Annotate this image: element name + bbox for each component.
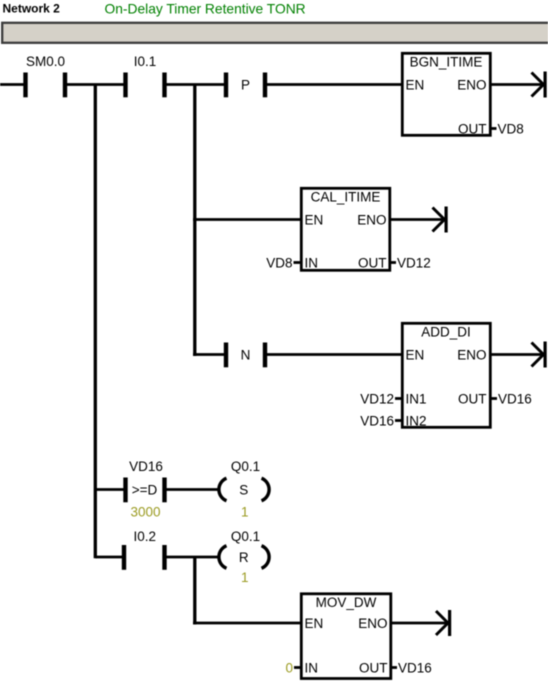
- svg-text:R: R: [239, 550, 249, 565]
- svg-text:CAL_ITIME: CAL_ITIME: [311, 190, 381, 205]
- contact I0.1: [123, 54, 166, 97]
- svg-text:VD12: VD12: [360, 391, 394, 406]
- arrow continuation rung3: [532, 342, 547, 368]
- wire IN2 tick: [395, 419, 401, 422]
- arrow continuation rung2: [433, 207, 448, 233]
- svg-text:Q0.1: Q0.1: [231, 529, 260, 544]
- wire ENO out: [492, 353, 544, 356]
- svg-text:3000: 3000: [130, 505, 160, 520]
- svg-text:On-Delay Timer Retentive TONR: On-Delay Timer Retentive TONR: [105, 1, 306, 16]
- svg-text:VD12: VD12: [397, 255, 431, 270]
- wire: [167, 556, 219, 559]
- svg-text:N: N: [241, 347, 251, 362]
- svg-text:OUT: OUT: [359, 660, 388, 675]
- svg-text:IN: IN: [305, 660, 319, 675]
- contact I0.2: [122, 529, 167, 570]
- wire: [193, 218, 300, 221]
- wire IN1 tick: [395, 397, 401, 400]
- wire: [167, 488, 219, 491]
- comment bar: [2, 23, 548, 43]
- contact compare >=D: [123, 459, 166, 520]
- svg-text:IN1: IN1: [406, 391, 427, 406]
- wire OUT tick: [391, 261, 396, 264]
- wire from bus1: [95, 488, 123, 491]
- coil S Q0.1: [219, 459, 269, 520]
- svg-text:S: S: [239, 482, 248, 497]
- svg-text:0: 0: [285, 660, 293, 675]
- box U4 MOV_DW: [301, 594, 391, 679]
- svg-text:1: 1: [241, 505, 249, 520]
- wire OUT tick: [492, 397, 498, 400]
- svg-text:Network 2: Network 2: [3, 1, 61, 15]
- wire OUT tick: [492, 127, 497, 130]
- coil R Q0.1: [219, 529, 269, 585]
- contact N negative edge: [224, 343, 267, 368]
- wire bus2 vertical: [193, 85, 196, 357]
- svg-text:P: P: [241, 77, 250, 92]
- wire elbow from bus1: [95, 556, 122, 559]
- wire left rail stub: [0, 83, 24, 86]
- wire ENO out: [492, 83, 544, 86]
- svg-text:EN: EN: [406, 77, 425, 92]
- wire elbow from bus2: [193, 353, 224, 356]
- svg-text:EN: EN: [406, 347, 425, 362]
- wire: [267, 353, 401, 356]
- svg-text:ENO: ENO: [358, 616, 387, 631]
- svg-text:VD16: VD16: [498, 391, 532, 406]
- wire: [167, 83, 225, 86]
- wire IN tick: [294, 261, 301, 264]
- svg-text:EN: EN: [305, 212, 324, 227]
- box U3 ADD_DI: [402, 323, 490, 428]
- arrow continuation rung6: [436, 610, 451, 636]
- svg-text:EN: EN: [305, 616, 324, 631]
- wire: [67, 83, 124, 86]
- svg-text:1: 1: [241, 570, 249, 585]
- wire bus1 vertical: [94, 85, 97, 559]
- contact SM0.0: [23, 54, 67, 97]
- svg-text:VD16: VD16: [129, 459, 163, 474]
- svg-text:I0.2: I0.2: [134, 529, 157, 544]
- wire IN tick: [294, 666, 300, 669]
- svg-text:I0.1: I0.1: [134, 54, 157, 69]
- svg-text:OUT: OUT: [458, 391, 487, 406]
- wire: [267, 83, 401, 86]
- svg-text:ENO: ENO: [357, 212, 386, 227]
- svg-text:>=D: >=D: [132, 482, 158, 497]
- svg-text:VD8: VD8: [266, 255, 292, 270]
- svg-text:BGN_ITIME: BGN_ITIME: [410, 55, 483, 70]
- arrow continuation rung1: [532, 72, 547, 98]
- wire OUT tick: [392, 666, 397, 669]
- contact P positive edge: [224, 73, 267, 98]
- svg-text:ENO: ENO: [457, 347, 486, 362]
- svg-text:ENO: ENO: [457, 77, 486, 92]
- svg-text:OUT: OUT: [458, 121, 487, 136]
- wire elbow from bus3: [193, 622, 300, 625]
- svg-text:OUT: OUT: [358, 255, 387, 270]
- svg-text:IN: IN: [305, 255, 319, 270]
- wire ENO out: [392, 622, 448, 625]
- svg-text:SM0.0: SM0.0: [26, 54, 65, 69]
- svg-text:ADD_DI: ADD_DI: [421, 325, 471, 340]
- svg-text:VD8: VD8: [498, 121, 524, 136]
- wire bus3 vertical: [193, 557, 196, 625]
- svg-text:VD16: VD16: [398, 660, 432, 675]
- svg-text:MOV_DW: MOV_DW: [316, 595, 377, 610]
- svg-text:VD16: VD16: [360, 413, 394, 428]
- wire ENO out: [391, 218, 445, 221]
- svg-text:Q0.1: Q0.1: [231, 459, 260, 474]
- svg-text:IN2: IN2: [406, 413, 427, 428]
- box U2 CAL_ITIME: [301, 188, 390, 270]
- box U1 BGN_ITIME: [402, 53, 490, 136]
